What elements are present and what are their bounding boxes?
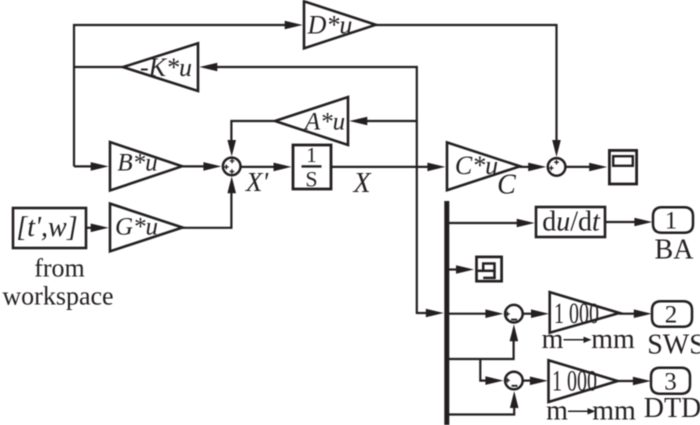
arrowhead into DTD sum bottom (up) [510, 391, 519, 408]
wire: demux bottom tap to DTD sum minus [449, 406, 514, 415]
label m->mm (SWS): arrow [564, 339, 586, 341]
arrowhead into port 2 [634, 309, 652, 318]
svg-text:BA: BA [655, 235, 695, 266]
svg-text:2: 2 [665, 302, 678, 329]
arrowhead into scope [589, 163, 607, 172]
svg-text:m: m [546, 396, 568, 425]
arrowhead into D*u [285, 21, 303, 30]
svg-text:1: 1 [665, 208, 678, 235]
wire: demux to memory block [449, 268, 457, 270]
derivative block du/dt [536, 207, 605, 237]
minus sign bottom of SWS sum [511, 319, 517, 321]
plus sign left of SWS sum [505, 312, 510, 317]
output port 3 [651, 368, 690, 394]
plus sign left of X' sum [224, 165, 229, 170]
wire: SWS sum output [523, 313, 532, 315]
arrowhead into DTD gain [530, 377, 548, 386]
memory block inner glyph [478, 264, 496, 278]
gain C*u [447, 142, 520, 190]
sum junction DTD [505, 372, 523, 390]
arrowhead into K*u (left) [199, 63, 217, 72]
wire: K*u input from node line [216, 66, 417, 68]
plus sign left of right sum [549, 166, 554, 171]
wire: G*u output up to sum [182, 192, 232, 228]
svg-text:m: m [542, 324, 564, 355]
svg-text:mm: mm [591, 324, 635, 355]
sum junction output (right) [548, 158, 566, 176]
arrowhead into integrator [274, 163, 292, 172]
sum junction SWS [505, 305, 523, 323]
arrowhead into right sum top (down) [552, 140, 561, 157]
wire: DTD gain output to port 3 [617, 380, 634, 382]
arrowhead into X' sum left [203, 162, 221, 171]
wire: right sum output to scope [565, 166, 590, 168]
svg-text:G*u: G*u [115, 214, 158, 241]
arrowhead into C*u [427, 163, 445, 172]
svg-text:S: S [305, 167, 317, 192]
svg-text:SWS: SWS [647, 330, 700, 361]
wire: from-workspace block output [86, 227, 92, 229]
gain -K*u [123, 43, 198, 91]
svg-text:1: 1 [306, 143, 317, 167]
svg-text:[t',w]: [t',w] [16, 212, 77, 243]
arrowhead into demux [426, 309, 444, 318]
arrowhead into port 1 [634, 218, 652, 227]
wire: D*u output to right sum [376, 25, 557, 141]
svg-text:du/dt: du/dt [542, 207, 601, 238]
svg-text:C*u: C*u [455, 151, 498, 180]
sum junction X' [223, 158, 241, 176]
arrowhead into memory block [456, 265, 474, 274]
svg-text:mm: mm [592, 396, 636, 425]
wire: demux to SWS sum [449, 313, 486, 315]
arrowhead into X' sum bottom (up) [227, 176, 236, 193]
svg-text:workspace: workspace [2, 282, 113, 311]
wire: into B*u [74, 165, 92, 167]
minus sign bottom of DTD sum [512, 385, 518, 387]
wire: K*u output to vertical line [75, 66, 123, 68]
integrator block 1/S [293, 145, 331, 189]
plus sign bottom of X' sum [230, 169, 235, 174]
plus sign top of right sum [554, 160, 559, 165]
arrowhead into A*u (left) [349, 117, 367, 126]
svg-text:3: 3 [664, 369, 677, 396]
svg-text:X': X' [245, 167, 269, 197]
output port 2 [652, 301, 692, 327]
demux bar [444, 201, 449, 425]
gain B*u [110, 142, 182, 191]
arrowhead into DTD sum left [485, 376, 503, 385]
svg-text:C: C [497, 170, 516, 201]
wire: sum X' to integrator [241, 166, 276, 168]
wire: DTD sum output [523, 380, 531, 382]
wire: vertical node line x=417 [416, 66, 418, 313]
label m->mm (DTD): arrow [568, 410, 590, 412]
svg-text:A*u: A*u [303, 109, 345, 136]
memory block square [477, 257, 502, 281]
plus sign top of X' sum [230, 159, 235, 164]
gain A*u [275, 97, 348, 145]
wire: node line into demux [416, 312, 427, 314]
wire: C*u output to right sum [519, 166, 530, 168]
arrowhead into du/dt [517, 219, 535, 228]
arrowhead into right sum left [528, 163, 546, 172]
arrowhead into G*u [91, 224, 109, 233]
wire: demux to du/dt [449, 222, 518, 224]
wire: A*u input from node line [366, 120, 417, 122]
scope block [609, 150, 636, 184]
scope screen [613, 156, 633, 166]
gain D*u [304, 1, 376, 48]
arrowhead into SWS gain [531, 309, 549, 318]
from-workspace source block [t',w] [13, 208, 86, 248]
svg-text:B*u: B*u [117, 150, 157, 177]
svg-text:DTD: DTD [644, 393, 700, 424]
arrowhead into SWS sum bottom (up) [510, 324, 519, 341]
svg-text:-K*u: -K*u [140, 53, 192, 82]
arrowhead into port 3 [633, 377, 651, 386]
fraction bar of 1/S [302, 165, 322, 167]
svg-text:X: X [352, 168, 371, 199]
wire: demux lower tap to SWS sum minus and DTD sum plus [449, 340, 514, 359]
plus sign left of DTD sum [505, 378, 510, 383]
arrowhead into B*u [91, 162, 109, 171]
arrowhead into X' sum top (down) [227, 140, 236, 157]
gain 1000 (SWS) [550, 292, 620, 333]
svg-text:from: from [34, 254, 85, 283]
wire: branch down to DTD sum [480, 359, 486, 381]
arrowhead into SWS sum left [485, 309, 503, 318]
wire: du/dt output to port 1 [605, 221, 636, 223]
wire: B*u output to sum [181, 165, 204, 167]
gain 1000 (DTD) [549, 360, 618, 402]
output port 1 [653, 207, 693, 233]
wire: vertical feed line x=75 (u signal) [74, 25, 285, 166]
wire: A*u output down to sum [231, 121, 274, 141]
svg-text:D*u: D*u [307, 11, 353, 40]
wire: X line from integrator to C*u [331, 166, 428, 168]
wire: SWS gain output to port 2 [619, 313, 635, 315]
svg-text:1 000: 1 000 [552, 365, 597, 397]
gain G*u [110, 204, 183, 252]
